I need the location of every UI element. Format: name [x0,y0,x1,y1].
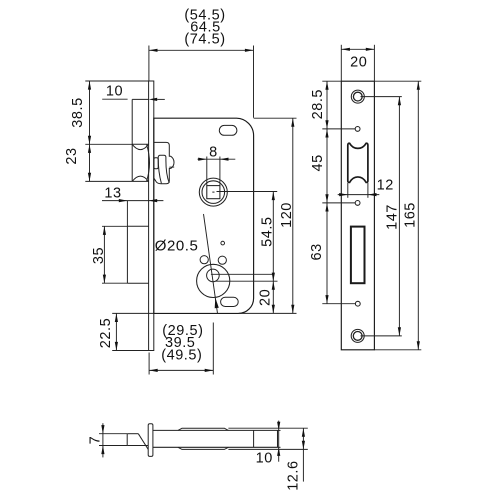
strike pin hole 3 [355,301,360,306]
svg-text:28.5: 28.5 [310,89,326,119]
dim 10 (case depth inner) [278,429,281,431]
lock case outline [154,118,254,313]
svg-text:35: 35 [91,247,107,264]
dim 120 (case height) [254,117,297,119]
8mm square spindle hole [207,186,220,199]
dim 12.6 (case depth overall) [228,427,307,429]
svg-text:23: 23 [64,147,80,164]
strike pin hole 2 [355,201,360,206]
dim 165 (strike height) [374,80,421,82]
dim 8 (square hole width) [206,157,208,186]
strike top screw hole [351,90,364,103]
spindle hub inner circle [202,181,225,204]
strike plate outline [341,81,374,350]
dim 20 (strike width) [340,45,342,81]
svg-text:10: 10 [106,83,123,99]
dim 45 [322,202,355,204]
svg-text:12.6: 12.6 [286,460,302,490]
side view top mounting tab [178,428,228,430]
dim 7 (latch thickness) [99,433,127,435]
svg-text:20: 20 [350,55,367,71]
side view faceplate [148,424,153,457]
svg-text:165: 165 [403,202,419,228]
dim 12 (latch cutout width) [347,183,349,198]
svg-text:120: 120 [279,202,295,228]
dim 20 (cylinder to case bottom) [272,281,274,313]
side view case body [152,429,277,431]
svg-text:12: 12 [377,178,394,194]
dim (54.5)/64.5/(74.5) backset [148,46,150,81]
cylinder hole circle D20.5 [197,264,230,297]
top oval slot in case [219,125,237,135]
latch guide box (protruding, above latch) [131,99,133,181]
faceplate (lock forend, front view) [149,81,154,351]
dim 54.5 (spindle to cylinder) [217,191,278,193]
dim 28.5 [322,80,341,82]
small circle left (screw post) [200,256,208,264]
svg-text:147: 147 [385,204,401,230]
dim 38.5 [85,80,149,82]
small circle right (screw post) [218,256,226,264]
strike deadbolt cutout [351,227,365,284]
svg-text:10: 10 [256,451,273,467]
svg-text:Ø20.5: Ø20.5 [155,238,199,255]
leader line for D20.5 [204,214,218,313]
bottom oval slot in case [221,297,239,306]
svg-text:45: 45 [310,154,326,171]
dim (29.5)/39.5/(49.5) backset bottom [148,353,150,375]
spindle hub outer circle [199,178,227,206]
dim 35 (deadbolt height) [102,225,127,227]
strike latch cutout [348,143,368,182]
svg-text:38.5: 38.5 [70,97,86,127]
strike bottom screw hole [351,329,364,342]
dim 63 [322,303,355,305]
svg-text:(49.5): (49.5) [161,348,202,364]
svg-text:63: 63 [309,243,325,260]
latch follower mechanism (inside case) [154,142,174,183]
svg-text:54.5: 54.5 [260,216,276,246]
deadbolt (thrown, front view) [126,226,128,283]
dim 22.5 [112,312,154,314]
tiny pin circle [221,241,225,245]
svg-text:8: 8 [209,144,218,160]
strike pin hole 1 [355,126,360,131]
svg-text:(74.5): (74.5) [184,32,225,48]
side view latch bolt bevel [127,433,138,435]
dim 23 [85,180,132,182]
inner cam circle [207,269,220,282]
dim 147 (screw centers) [361,96,402,98]
svg-text:7: 7 [88,436,104,445]
side view bottom mounting tab [178,447,228,449]
latch bolt head (front view) [132,143,148,145]
svg-text:22.5: 22.5 [98,318,114,348]
svg-text:20: 20 [258,289,274,306]
